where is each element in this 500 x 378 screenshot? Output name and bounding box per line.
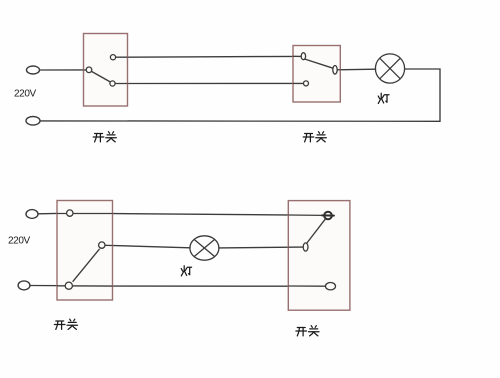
svg-text:220V: 220V xyxy=(8,235,30,246)
svg-text:220V: 220V xyxy=(14,88,36,99)
